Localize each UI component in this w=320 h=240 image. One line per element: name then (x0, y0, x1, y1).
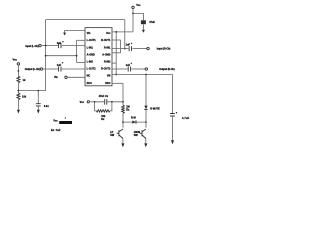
wire left bus branch to feedback bus (46, 55, 77, 57)
node top loop / R-IN1 junction (124, 48, 126, 50)
wire R2 to ground (17, 100, 19, 110)
svg-text:A-GND: A-GND (102, 53, 110, 56)
node on left Vcc wire (18, 70, 20, 72)
capacitor C6 plates (128, 67, 130, 72)
svg-text:*: * (65, 118, 66, 121)
svg-text:Vcc: Vcc (53, 120, 58, 123)
wire Input L to cap (41, 45, 58, 47)
wire VB drop right (172, 75, 174, 114)
svg-text:OSC: OSC (105, 82, 111, 85)
wire R-IN2 pin (112, 62, 116, 64)
svg-text:47uF Cx: 47uF Cx (99, 95, 109, 98)
wire cap C4 to ground (142, 24, 144, 30)
wire R3 down (122, 113, 124, 127)
svg-text:0.1u: 0.1u (44, 105, 49, 108)
resistor R1 (17, 76, 20, 83)
ground arrow Q1 (121, 143, 124, 147)
wire top bias loop (46, 19, 125, 21)
node bypass cap junction (37, 90, 39, 92)
wire Q2 emitter to ground (145, 139, 147, 144)
svg-text:Vin: Vin (54, 76, 58, 79)
node mute branch (145, 74, 147, 76)
capacitor C4 47uF body (141, 20, 146, 24)
svg-text:Output (R-Ch): Output (R-Ch) (159, 68, 175, 71)
ground arrow on Vin stub (63, 33, 66, 36)
svg-text:Input (L-Ch): Input (L-Ch) (25, 45, 38, 48)
terminal Input (R-Ch) (147, 47, 149, 49)
node diode rail left (122, 121, 124, 123)
wire OSC drop (122, 83, 124, 105)
wire RC loop left and bottom (95, 102, 112, 111)
ground arrow left (17, 110, 20, 114)
svg-text:Vcc: Vcc (136, 4, 141, 7)
svg-text:Ex : 1uF: Ex : 1uF (51, 129, 61, 132)
wire cap C2 to L-OUT2 (62, 68, 85, 70)
wire RC top (95, 101, 123, 103)
wire right bus2 (120, 40, 122, 53)
svg-text:R-M: R-M (131, 117, 136, 120)
wire junction to bypass cap (37, 91, 39, 104)
transistor Q2 (141, 130, 143, 136)
wire Vin terminal to NC pin (67, 76, 85, 78)
svg-text:DCC: DCC (87, 82, 93, 85)
svg-text:VB: VB (107, 75, 111, 78)
wire Vref to RC (89, 101, 94, 103)
note footnote highlighted box (59, 121, 72, 124)
capacitor C7 plates (170, 114, 175, 117)
svg-text:L-IN1: L-IN1 (87, 46, 94, 49)
svg-text:L-OUT1: L-OUT1 (87, 39, 97, 42)
wire cap C1 to L-IN1 (62, 45, 85, 47)
capacitor C1 1uF plates (59, 43, 61, 48)
wire A-GND right pin (112, 52, 121, 54)
svg-text:SW: SW (110, 134, 115, 137)
wire Output L to cap (43, 68, 58, 70)
wire cap C6 to terminal (132, 68, 146, 70)
node Vref feed (122, 101, 124, 103)
svg-text:Vcc: Vcc (13, 59, 18, 62)
wire R-OUT1 pin (112, 39, 121, 41)
wire Q1 emitter to ground (122, 139, 124, 144)
resistor R3 (122, 105, 125, 113)
wire VB pin long run (112, 74, 173, 76)
svg-text:SW: SW (134, 134, 139, 137)
wire cap C7 to ground (172, 116, 174, 140)
node left junction (18, 90, 20, 92)
wire Vcc riser (132, 9, 134, 32)
svg-text:R-IN2: R-IN2 (104, 61, 111, 64)
node diode rail right (145, 121, 147, 123)
svg-text:Output (L-Ch): Output (L-Ch) (25, 68, 40, 71)
svg-text:47uF: 47uF (149, 21, 155, 24)
wire top loop right drop to R-IN1 node (124, 20, 126, 49)
terminal Output (R-Ch) (145, 68, 147, 70)
ground arrow decoupling (142, 30, 145, 33)
svg-text:1uF: 1uF (126, 44, 131, 47)
capacitor Cx plates (105, 99, 107, 105)
ground arrow Q2 (144, 143, 147, 147)
wire mute branch down (145, 75, 147, 106)
wire cap C3 to ground (37, 106, 39, 110)
wire Vin arrow stub (64, 30, 66, 32)
svg-text:Vin: Vin (87, 32, 91, 35)
wire R1 to junction (17, 83, 19, 93)
node feedback bus branch (76, 55, 78, 57)
ground arrow right (171, 140, 174, 144)
op-amp U1 IC body (85, 28, 112, 86)
capacitor C5 plates (129, 46, 131, 51)
svg-text:1uF: 1uF (57, 42, 62, 45)
capacitor C3 plates (36, 104, 41, 106)
wire OSC pin (112, 82, 123, 84)
wire R-IN1 pin to cap (112, 48, 128, 50)
wire D1 to rail (145, 110, 147, 128)
svg-text:L-OUT2: L-OUT2 (87, 68, 97, 71)
svg-text:4.7uF: 4.7uF (182, 117, 190, 120)
node bus1 top (115, 31, 117, 33)
diode D1 (144, 106, 147, 110)
resistor R2 (17, 93, 20, 100)
svg-text:L-IN2: L-IN2 (87, 61, 94, 64)
wire diode rail (123, 121, 146, 123)
wire Vcc pin (112, 31, 133, 33)
wire cap C5 to terminal (132, 48, 146, 50)
wire feedback bus L-OUT1 to L-IN2 (76, 40, 78, 62)
svg-text:R-OUT2: R-OUT2 (101, 68, 111, 71)
wire L-IN2 pin (77, 61, 85, 63)
svg-text:R-MUTE: R-MUTE (150, 107, 160, 110)
resistor Rx (96, 110, 109, 112)
ground arrow bypass (37, 110, 40, 114)
node Vcc decoupling branch (132, 13, 134, 15)
diode D2 (132, 120, 136, 123)
node input L / bus junction (45, 45, 47, 47)
wire Vcc left down (17, 65, 19, 76)
node RC right (111, 101, 113, 103)
svg-text:Vcc: Vcc (106, 32, 111, 35)
wire R-OUT2 pin to cap (112, 68, 128, 70)
wire Vin pin (65, 29, 85, 31)
wire L-OUT1 pin (77, 39, 85, 41)
wire bottom-left horizontal (18, 90, 45, 92)
svg-text:1uF: 1uF (57, 64, 62, 67)
svg-text:Vcc: Vcc (80, 101, 85, 104)
svg-text:10k: 10k (22, 96, 27, 99)
svg-text:R-OUT1: R-OUT1 (101, 39, 111, 42)
node left bus branch (45, 55, 47, 57)
node bus1 bottom (115, 74, 117, 76)
wire right bus1 Vcc to VB (115, 32, 117, 75)
svg-text:R-IN1: R-IN1 (104, 46, 111, 49)
transistor Q1 (118, 130, 120, 136)
svg-text:NC: NC (87, 75, 91, 78)
node RC left (94, 101, 96, 103)
wire left bus vertical (45, 20, 47, 91)
wire to decoupling cap (133, 13, 143, 20)
svg-text:Input (R-Ch): Input (R-Ch) (157, 48, 171, 51)
capacitor C2 1uF plates (59, 67, 61, 72)
svg-text:A-GND: A-GND (87, 53, 95, 56)
